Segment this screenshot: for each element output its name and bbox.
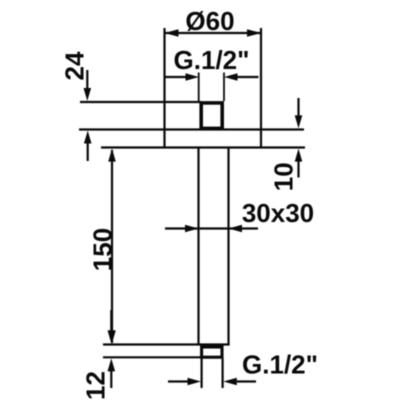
dimension 24 down arrowhead [84, 88, 92, 101]
flange left edge / Ø60 left extension line [163, 28, 165, 148]
G.1/2 top left extension line [198, 73, 200, 102]
tube right side [227, 148, 229, 345]
svg-text:G.1/2": G.1/2" [174, 45, 250, 75]
dimension 10 up arrowhead [295, 149, 303, 162]
dimension 30x30 right-pointing arrowhead [185, 225, 199, 232]
dimension G.1/2 top right leader [238, 76, 259, 78]
dimension Ø60 line [165, 32, 262, 34]
dimension 150 top arrowhead [108, 149, 116, 162]
dimension 12 lower tail [110, 369, 112, 388]
bottom thread collar box (thick) [202, 347, 222, 357]
flange top line A [80, 101, 201, 103]
dimension G.1/2 top left arrowhead [186, 73, 200, 81]
G.1/2 top right extension line [223, 73, 225, 102]
dimension 150 bottom arrowhead [108, 330, 116, 343]
dimension 10 upper tail [297, 98, 299, 117]
line E below tube [103, 356, 201, 358]
dimension G.1/2 bottom right leader [237, 380, 256, 382]
svg-text:Ø60: Ø60 [185, 6, 234, 36]
dimension G.1/2 bottom left leader [168, 380, 188, 382]
svg-text:30x30: 30x30 [242, 198, 314, 228]
tube bottom line D [103, 343, 230, 345]
dimension 12 upper tail [110, 310, 112, 332]
dimension Ø60 left arrowhead [165, 29, 179, 37]
dimension 30x30 left-pointing arrowhead [229, 225, 243, 232]
dimension 24 up arrowhead [84, 131, 92, 144]
dimension 24 lower tail [87, 142, 89, 162]
dimension 12 down arrowhead [108, 330, 116, 343]
dimension G.1/2 top right arrowhead [224, 73, 238, 81]
svg-text:G.1/2": G.1/2" [242, 350, 318, 380]
flange right edge / Ø60 right extension line [260, 28, 262, 148]
flange bottom line C [101, 146, 305, 148]
dimension G.1/2 bottom left arrowhead [188, 378, 202, 385]
dimension 12 up arrowhead [108, 358, 116, 371]
dimension 30x30 leader line [165, 227, 258, 229]
top thread square (thick) [201, 103, 222, 128]
dimension G.1/2 top left leader [165, 76, 187, 78]
svg-text:12: 12 [81, 371, 111, 400]
lower thread left side [201, 359, 203, 389]
flange mid line B [79, 128, 304, 130]
dimension 10 lower tail [297, 160, 299, 178]
dimension 10 down arrowhead [295, 115, 303, 128]
dimension 150 line [111, 150, 113, 343]
dimension G.1/2 bottom right arrowhead [223, 378, 237, 385]
dimension Ø60 right arrowhead [247, 29, 261, 37]
tube left side [197, 148, 199, 345]
dimension 24 upper tail [86, 70, 88, 90]
svg-text:24: 24 [60, 51, 90, 80]
lower thread right side [222, 359, 224, 389]
svg-text:10: 10 [268, 162, 298, 191]
